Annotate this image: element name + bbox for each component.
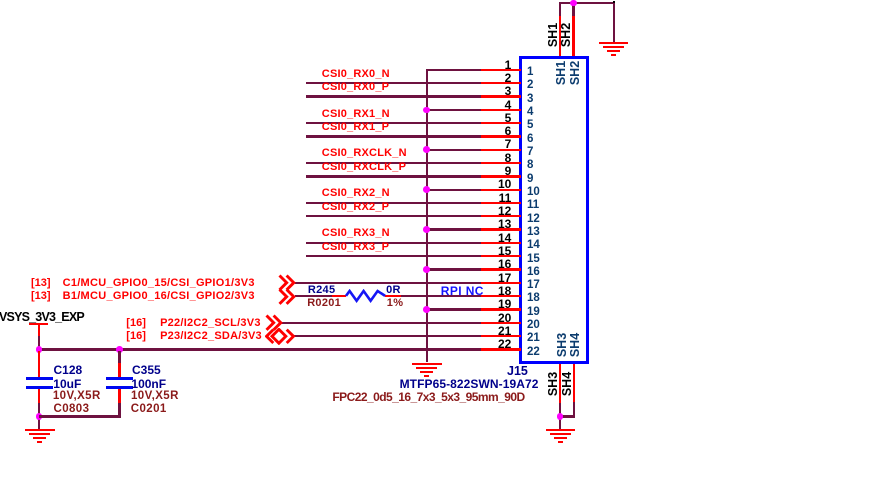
- pin 1 number (inside): [527, 67, 533, 79]
- wire C128 to ground: [38, 403, 40, 429]
- pin 18 number (outside): [471, 285, 511, 297]
- wire pin 18 right segment: [401, 295, 480, 297]
- wire pin 6: [306, 135, 481, 137]
- power tap bar VSYS_3V3_EXP: [29, 323, 48, 325]
- capacitor C128 rating 10V,X5R: [53, 391, 101, 403]
- wire pin 5: [306, 122, 481, 124]
- wire pin 2: [306, 82, 481, 84]
- capacitor C128 top lead (red): [38, 351, 41, 378]
- net label CSI0_RX3_N: [322, 228, 390, 239]
- pin SH4 name (outside): [552, 359, 582, 409]
- pin 8 number (outside): [471, 152, 511, 164]
- pin 21 stub: [481, 335, 522, 337]
- pin 2 stub: [481, 82, 522, 84]
- wire pin 10: [427, 189, 481, 191]
- junction pin 16: [423, 266, 430, 273]
- ground symbol (top right): [0, 0, 1, 1]
- port label [13] row18: [31, 291, 51, 302]
- connector J15 body: [519, 56, 589, 365]
- junction VSYS/C355: [116, 346, 123, 353]
- pin 10 stub: [481, 189, 522, 191]
- wire shield top horizontal: [559, 2, 615, 4]
- wire C355 bottom: [118, 403, 120, 418]
- svg-text:SH4: SH4: [560, 372, 574, 396]
- pin SH1 name (outside): [538, 10, 568, 60]
- pin SH2 stub: [572, 16, 575, 56]
- pin 7 number (inside): [527, 147, 533, 159]
- resistor designator R245: [308, 285, 336, 296]
- pin 21 number (inside): [527, 333, 540, 345]
- capacitor C128 bottom lead (red): [38, 389, 41, 403]
- connector designator J15: [507, 365, 528, 378]
- pin 19 number (outside): [471, 298, 511, 310]
- net label CSI0_RX3_P: [322, 242, 389, 253]
- pin 1 stub: [481, 69, 522, 71]
- pin 20 stub: [481, 322, 522, 324]
- junction pin 13: [423, 226, 430, 233]
- pin 16 stub: [481, 268, 522, 270]
- pin SH3 stub: [559, 364, 562, 403]
- pin 7 number (outside): [471, 138, 511, 150]
- wire pin 1: [427, 69, 481, 71]
- pin 3 number (outside): [471, 85, 511, 97]
- capacitor C128 designator: [54, 364, 83, 376]
- port label [13] row17: [31, 278, 51, 289]
- wire pin 17: [295, 282, 481, 284]
- connector part number MTFP65-822SWN-19A72: [400, 378, 539, 390]
- pin 9 number (outside): [471, 165, 511, 177]
- net label VSYS_3V3_EXP: [0, 311, 84, 324]
- pin SH3 name (outside): [538, 359, 568, 409]
- pin 11 stub: [481, 202, 522, 204]
- pin 2 number (outside): [471, 72, 511, 84]
- pin SH4 name (inside): [560, 320, 590, 370]
- pin 4 number (inside): [527, 107, 533, 119]
- wire pin 22: [39, 348, 481, 350]
- svg-text:SH2: SH2: [559, 22, 573, 46]
- pin 6 number (outside): [471, 125, 511, 137]
- pin 5 stub: [481, 122, 522, 124]
- wire pin 4: [427, 109, 481, 111]
- port diamond row21: [265, 328, 296, 345]
- wire pin 13: [427, 228, 481, 230]
- port label [16] row20: [126, 318, 146, 329]
- wire ground bus vertical: [426, 69, 428, 362]
- pin 22 number (outside): [471, 338, 511, 350]
- pin 5 number (outside): [471, 112, 511, 124]
- pin 4 stub: [481, 109, 522, 111]
- port chevron row17: [278, 274, 298, 292]
- pin 12 stub: [481, 215, 522, 217]
- resistor R245 zigzag: [344, 289, 387, 303]
- wire pin 15: [306, 255, 481, 257]
- pin 16 number (outside): [471, 258, 511, 270]
- pin 10 number (inside): [527, 187, 540, 199]
- capacitor C355 value 100nF: [131, 378, 166, 390]
- pin 12 number (inside): [527, 214, 540, 226]
- wire pin 11: [306, 202, 481, 204]
- wire pin 16: [427, 268, 481, 270]
- capacitor C355 designator: [132, 364, 161, 376]
- pin 15 stub: [481, 255, 522, 257]
- junction pin 4: [423, 107, 430, 114]
- pin 18 number (inside): [527, 293, 540, 305]
- pin 2 number (inside): [527, 80, 533, 92]
- pin 19 stub: [481, 308, 522, 310]
- pin SH2 name (inside): [560, 48, 590, 98]
- pin 18 stub: [481, 295, 522, 297]
- pin 19 number (inside): [527, 307, 540, 319]
- ground symbol (C128): [0, 0, 1, 1]
- pin 21 number (outside): [471, 325, 511, 337]
- wire SH1 vertical: [559, 3, 561, 16]
- wire SH3 to ground: [559, 403, 561, 429]
- resistor R245 lead right (red): [385, 295, 401, 297]
- pin SH2 name (outside): [551, 10, 581, 60]
- ground symbol (bottom): [0, 0, 1, 1]
- wire pin 19: [427, 308, 481, 310]
- wire C355 to C128 (bottom): [39, 415, 121, 417]
- wire pin 7: [427, 149, 481, 151]
- pin 13 stub: [481, 228, 522, 230]
- capacitor C128 plates: [26, 377, 53, 380]
- wire pin 8: [306, 162, 481, 164]
- pin 17 number (outside): [471, 272, 511, 284]
- pin 9 number (inside): [527, 174, 533, 186]
- pin 16 number (inside): [527, 267, 540, 279]
- resistor value 0R: [386, 285, 401, 296]
- junction pin 7: [423, 146, 430, 153]
- wire SH2 vertical: [572, 3, 574, 16]
- pin 14 number (outside): [471, 232, 511, 244]
- net label CSI0_RX0_N: [322, 69, 390, 80]
- pin 13 number (inside): [527, 227, 540, 239]
- junction SH2 top: [570, 0, 577, 6]
- net label CSI0_RX0_P: [322, 82, 389, 93]
- port name P22/I2C2_SCL/3V3: [160, 318, 261, 329]
- pin 10 number (outside): [471, 178, 511, 190]
- pin 8 stub: [481, 162, 522, 164]
- pin 22 number (inside): [527, 347, 540, 359]
- junction C128/ground: [36, 413, 43, 420]
- capacitor C355 rating 10V,X5R: [131, 391, 179, 403]
- pin 6 stub: [481, 135, 522, 137]
- port name P23/I2C2_SDA/3V3: [160, 331, 262, 342]
- junction pin 19: [423, 306, 430, 313]
- pin 8 number (inside): [527, 160, 533, 172]
- wire pin 9: [306, 175, 481, 177]
- label RPI NC: [441, 285, 484, 297]
- wire pin 18 left segment: [295, 295, 332, 297]
- port name B1/MCU_GPIO0_16/CSI_GPIO2/3V3: [63, 291, 255, 302]
- pin 22 stub: [481, 348, 522, 350]
- pin 15 number (outside): [471, 245, 511, 257]
- pin 14 number (inside): [527, 240, 540, 252]
- wire pin 3: [306, 95, 481, 97]
- capacitor C128 value 10uF: [53, 378, 81, 390]
- wire pin 12: [306, 215, 481, 217]
- capacitor C355 plates: [106, 377, 133, 380]
- pin 3 number (inside): [527, 94, 533, 106]
- wire shield to ground (top right): [613, 3, 615, 42]
- pin 15 number (inside): [527, 254, 540, 266]
- junction VSYS/C128: [36, 346, 43, 353]
- resistor tolerance 1%: [387, 298, 404, 309]
- pin 17 stub: [481, 282, 522, 284]
- resistor footprint R0201: [307, 298, 341, 309]
- pin 6 number (inside): [527, 134, 533, 146]
- pin 12 number (outside): [471, 205, 511, 217]
- junction SH3/SH4: [557, 413, 564, 420]
- pin 3 stub: [481, 95, 522, 97]
- power tap stub (red): [38, 324, 41, 336]
- port chevron row20: [265, 314, 285, 332]
- pin SH3 name (inside): [547, 320, 577, 370]
- pin 13 number (outside): [471, 218, 511, 230]
- wire VSYS vertical: [38, 336, 40, 350]
- net label CSI0_RX2_N: [322, 188, 390, 199]
- pin SH4 stub: [573, 364, 576, 402]
- port label [16] row21: [126, 331, 146, 342]
- pin 1 number (outside): [471, 59, 511, 71]
- pin SH1 name (inside): [546, 48, 576, 98]
- pin 20 number (inside): [527, 320, 540, 332]
- wire SH4 vertical: [573, 402, 575, 417]
- net label CSI0_RX2_P: [322, 202, 389, 213]
- pin 5 number (inside): [527, 120, 533, 132]
- pin 11 number (inside): [527, 200, 539, 212]
- capacitor C355 footprint C0201: [131, 404, 167, 416]
- pin SH1 stub: [559, 16, 562, 56]
- pin 9 stub: [481, 175, 522, 177]
- pin 14 stub: [481, 242, 522, 244]
- svg-text:SH2: SH2: [568, 61, 582, 85]
- capacitor C355 top lead (red): [118, 363, 121, 378]
- pin 7 stub: [481, 149, 522, 151]
- svg-text:SH4: SH4: [568, 333, 582, 357]
- port name C1/MCU_GPIO0_15/CSI_GPIO1/3V3: [63, 278, 255, 289]
- junction pin 10: [423, 186, 430, 193]
- port chevron row18: [278, 288, 298, 306]
- wire pin 20: [280, 322, 480, 324]
- pin 11 number (outside): [471, 192, 511, 204]
- wire pin 14: [306, 242, 481, 244]
- connector footprint FPC22_0d5_16_7x3_5x3_95mm_90D: [332, 391, 524, 403]
- net label CSI0_RXCLK_N: [322, 148, 407, 159]
- wire pin 21: [294, 335, 481, 337]
- wire C355 top: [118, 351, 120, 363]
- pin 4 number (outside): [471, 99, 511, 111]
- net label CSI0_RX1_P: [322, 122, 389, 133]
- capacitor C355 bottom lead (red): [118, 389, 121, 403]
- wire SH4 to SH3: [559, 415, 575, 417]
- corner dot: [613, 1, 615, 3]
- net label CSI0_RXCLK_P: [322, 162, 406, 173]
- pin 17 number (inside): [527, 280, 540, 292]
- ground symbol (bus): [0, 0, 1, 1]
- net label CSI0_RX1_N: [322, 109, 390, 120]
- pin 20 number (outside): [471, 312, 511, 324]
- resistor R245 lead left (red): [332, 295, 347, 297]
- capacitor C128 footprint C0803: [54, 404, 90, 416]
